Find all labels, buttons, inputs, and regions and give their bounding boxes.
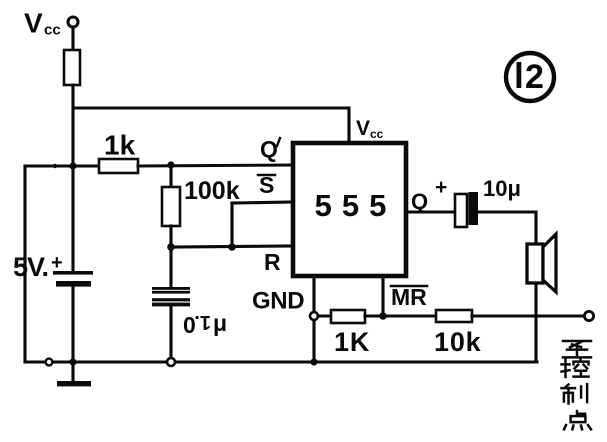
speaker LS1 cone bbox=[543, 234, 556, 292]
char: kong (control) bbox=[562, 359, 589, 377]
node junction GND / bottom rail bbox=[310, 358, 317, 365]
wire C1 to bottom rail bbox=[169, 306, 172, 358]
char: dian (point) bbox=[564, 411, 591, 429]
wire S bracket to S pin bbox=[232, 202, 293, 203]
speaker LS1 body bbox=[527, 244, 543, 283]
annotation: to control point (Chinese, vertical, drawn strokes) bbox=[562, 341, 592, 429]
svg-text:Q: Q bbox=[260, 136, 278, 162]
resistor R3 1K bbox=[331, 310, 365, 323]
svg-text:R: R bbox=[264, 249, 281, 275]
wire battery to bottom rail bbox=[71, 286, 74, 362]
node junction 100k branch bbox=[167, 161, 174, 168]
char: zhi (to) bbox=[563, 341, 591, 357]
wire top rail to 555 Vcc pin bbox=[73, 108, 349, 143]
capacitor C1 0.1u plates bbox=[152, 287, 190, 306]
Vcc terminal bbox=[68, 17, 78, 27]
open node GND / 1K wire bbox=[310, 312, 318, 320]
node junction S bracket / R wire bbox=[228, 243, 236, 251]
op IC U1 555 box bbox=[293, 143, 406, 276]
label S with overline bbox=[258, 172, 275, 198]
Vcc pin label (above 555) bbox=[356, 117, 384, 141]
svg-text:μ: μ bbox=[213, 310, 227, 336]
node junction MR pin bbox=[379, 312, 387, 320]
label MR with overline bbox=[391, 284, 427, 310]
label Q' bbox=[260, 136, 280, 162]
wire S bracket vertical bbox=[230, 203, 233, 247]
battery B1 negative plate bbox=[56, 281, 91, 287]
capacitor C2 10u negative plate bbox=[469, 192, 479, 225]
wire 10K to output terminal bbox=[472, 314, 584, 317]
wire MR pin bbox=[381, 277, 384, 316]
svg-text:555: 555 bbox=[315, 188, 397, 223]
svg-text:5V.: 5V. bbox=[13, 252, 48, 282]
resistor R4 10K bbox=[436, 310, 472, 322]
wire speaker to bottom rail bbox=[534, 283, 537, 362]
svg-text:+: + bbox=[51, 252, 63, 274]
svg-text:1k: 1k bbox=[104, 130, 136, 161]
svg-text:GND: GND bbox=[252, 288, 304, 315]
label 5V.+ bbox=[13, 252, 63, 282]
svg-text:1.: 1. bbox=[194, 311, 211, 333]
svg-text:100k: 100k bbox=[184, 177, 240, 205]
wire Q output pin bbox=[406, 210, 455, 213]
svg-text:cc: cc bbox=[44, 22, 61, 39]
node junction 100k / R wire bbox=[167, 243, 175, 251]
svg-text:0: 0 bbox=[183, 312, 196, 338]
battery B1 positive plate bbox=[53, 271, 93, 275]
resistor R1 (vertical pull-up) bbox=[64, 50, 80, 85]
wire GND pin down bbox=[312, 277, 315, 362]
open node on bottom rail (C1) bbox=[167, 358, 175, 366]
ground bbox=[57, 381, 91, 386]
svg-text:V: V bbox=[356, 117, 370, 140]
resistor 1k (horizontal) bbox=[99, 159, 138, 173]
svg-text:MR: MR bbox=[391, 284, 427, 310]
wire junction down to 100k bbox=[169, 165, 172, 187]
resistor 100k (vertical) bbox=[162, 187, 180, 226]
capacitor C2 10u positive plate bbox=[455, 194, 467, 227]
small tick artifact on wire bbox=[53, 164, 57, 168]
wire 1k to 555 Q' pin bbox=[138, 165, 293, 166]
wire node to 1K resistor bbox=[318, 314, 331, 317]
wire node to capacitor C1 bbox=[169, 247, 172, 288]
svg-text:Q: Q bbox=[411, 189, 428, 214]
svg-text:10μ: 10μ bbox=[483, 176, 521, 201]
small connector circle on bottom rail bbox=[46, 359, 53, 366]
svg-text:V: V bbox=[24, 8, 43, 39]
wire R1 down to battery top bbox=[71, 85, 74, 272]
bottom rail wire bbox=[25, 360, 537, 363]
wire stub to ground bbox=[71, 362, 74, 381]
svg-text:2: 2 bbox=[525, 58, 544, 96]
output terminal bbox=[584, 311, 593, 320]
node junction main rail / 1k row bbox=[69, 162, 76, 169]
label 0.1u (printed upside-down) bbox=[183, 310, 227, 338]
left rail wire bbox=[23, 166, 26, 362]
wire 100k to node R bbox=[169, 226, 172, 247]
figure number badge 12 bbox=[506, 53, 554, 101]
wire left rail to 1k resistor bbox=[25, 164, 99, 167]
wire R pin bbox=[171, 246, 293, 247]
node junction battery / bottom rail bbox=[69, 358, 76, 365]
wire Vcc terminal to R1 bbox=[71, 27, 74, 50]
wire 1K to 10K bbox=[365, 314, 436, 317]
svg-text:cc: cc bbox=[370, 127, 384, 141]
Vcc label (top-left) bbox=[24, 8, 61, 39]
svg-text:10k: 10k bbox=[434, 327, 482, 357]
svg-text:+: + bbox=[435, 176, 447, 199]
char: zhi (system) bbox=[562, 384, 588, 403]
wire C2 to speaker bbox=[478, 212, 536, 245]
svg-text:1K: 1K bbox=[334, 327, 370, 357]
